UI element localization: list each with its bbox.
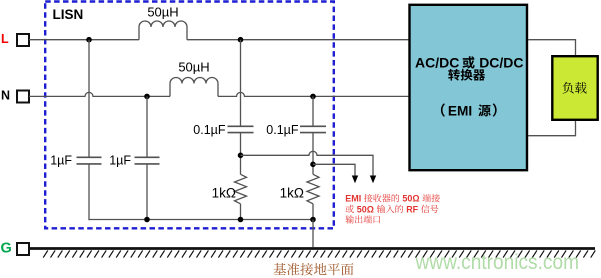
annotation line3 (345, 215, 353, 223)
converter text line2 (448, 69, 460, 81)
svg-text:1µF: 1µF (50, 153, 72, 167)
svg-text:DC/DC: DC/DC (479, 54, 523, 70)
wire ground drop x=313 (312, 220, 314, 248)
svg-text:EMI: EMI (345, 194, 361, 204)
wire bottom rail (89, 219, 313, 221)
ground plane hatching (43, 250, 595, 257)
terminal L box (17, 34, 29, 46)
wire vertical x=313 upper (312, 96, 314, 126)
svg-text:0.1µF: 0.1µF (193, 123, 226, 137)
wire RF tap from node (240.5,155.3) with hop over x=313 (241, 151, 374, 176)
arrowhead RF tap #2 (352, 176, 358, 184)
wire vertical x=147 lower (146, 164, 148, 219)
LISN enclosure dashed box (45, 2, 334, 229)
svg-text:0.1µF: 0.1µF (266, 123, 299, 137)
wire vertical x=240.5 upper (240, 40, 242, 126)
ground plane line (29, 247, 595, 250)
capacitor 0.1uF #1 (228, 126, 254, 132)
node bottom rail x=147 (144, 217, 150, 223)
svg-text:G: G (1, 241, 12, 257)
wire vertical x=313 middle (312, 133, 314, 175)
arrowhead RF tap #1 (370, 176, 376, 184)
label ground plane 基准接地平面 (273, 263, 286, 275)
svg-text:50Ω: 50Ω (357, 204, 374, 214)
wire vertical x=240.5 lower (240, 204, 242, 220)
wire vertical x=147 upper (146, 96, 148, 157)
wire L line right segment (187, 39, 409, 41)
svg-text:AC/DC: AC/DC (415, 54, 459, 70)
node on N line x=313 (310, 94, 316, 100)
node bottom rail x=240.5 (238, 217, 244, 223)
load text (563, 82, 574, 94)
svg-text:L: L (1, 32, 9, 46)
wire converter top to load (528, 40, 576, 55)
svg-text:N: N (1, 88, 10, 102)
wire vertical x=313 lower (312, 204, 314, 220)
node x=313 y=164.3 (310, 162, 316, 168)
resistor 1k #1 (235, 174, 247, 204)
svg-text:RF: RF (406, 204, 418, 214)
terminal N box (17, 91, 29, 103)
svg-text:50Ω: 50Ω (402, 194, 419, 204)
capacitor 1uF #1 (77, 157, 102, 164)
converter box AC/DC (410, 5, 528, 170)
wire vertical x=89 lower (88, 164, 90, 220)
wire vertical x=89 upper (88, 40, 90, 157)
annotation line2 (346, 205, 354, 213)
svg-text:50µH: 50µH (147, 4, 178, 19)
capacitor 1uF #2 (135, 157, 160, 164)
wire vertical x=240.5 middle (240, 133, 242, 175)
node on L line x=240.5 (238, 37, 244, 43)
node bottom rail x=313 (310, 217, 316, 223)
svg-text:50µH: 50µH (178, 60, 209, 75)
node on N line x=147 (144, 94, 150, 100)
wire N line with hops over verticals (29, 92, 170, 96)
node on L line x=89 (86, 37, 92, 43)
capacitor 0.1uF #2 (300, 126, 326, 132)
svg-text:1kΩ: 1kΩ (280, 186, 304, 201)
terminal G box (17, 243, 29, 255)
svg-text:1µF: 1µF (109, 153, 131, 167)
load box 负载 (552, 56, 597, 120)
wire N line right segment with hop (218, 92, 409, 96)
svg-text:EMI: EMI (448, 103, 472, 118)
svg-text:1kΩ: 1kΩ (212, 186, 236, 201)
inductor 50uH on L line (139, 21, 187, 40)
node x=240.5 y=155.3 (238, 153, 244, 159)
wire converter bottom to load (528, 121, 576, 136)
resistor 1k #2 (307, 174, 319, 204)
wire L line left segment (29, 39, 139, 41)
converter text line3 (EMI source) (441, 103, 445, 116)
svg-text:LISN: LISN (53, 7, 84, 22)
wire RF tap from node (313,164.3) (313, 164, 355, 176)
svg-text:www.cntronics.com: www.cntronics.com (415, 251, 579, 274)
inductor 50uH on N line (170, 78, 218, 97)
